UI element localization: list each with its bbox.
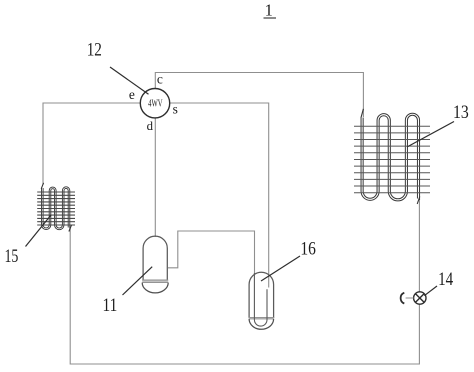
leader line 11 bbox=[123, 267, 153, 295]
condenser coil 13 fins bbox=[354, 126, 430, 193]
evaporator coil 15 fins bbox=[37, 192, 75, 225]
accumulator 16 internal inlet tube and U-turn bbox=[254, 273, 267, 326]
condenser 13 outlet tick bbox=[417, 197, 420, 205]
svg-text:11: 11 bbox=[103, 296, 118, 316]
wire e: valve left to evaporator 15 inlet bbox=[43, 103, 140, 185]
leader line 15 bbox=[26, 215, 52, 247]
svg-text:d: d bbox=[147, 119, 154, 133]
evaporator 15 inlet tick bbox=[41, 183, 43, 189]
wire s: valve right to accumulator 16 internal tube bbox=[170, 103, 269, 288]
expansion valve 14 circle with X bbox=[414, 292, 426, 304]
leader line 13 bbox=[407, 122, 454, 148]
valve 14 sensor link line bbox=[406, 297, 414, 299]
svg-text:12: 12 bbox=[87, 41, 102, 61]
condenser coil 13 tube bbox=[361, 113, 420, 201]
valve 14 sensor bulb arc bbox=[401, 293, 405, 304]
wire: compressor 11 side to accumulator 16 top bbox=[168, 231, 255, 274]
figure number 1 bbox=[264, 0, 277, 19]
svg-text:13: 13 bbox=[453, 103, 469, 123]
leader line 16 bbox=[261, 256, 300, 281]
leader line 14 bbox=[424, 286, 437, 296]
wire d: valve bottom to compressor 11 top bbox=[154, 118, 156, 237]
compressor 11 body bbox=[142, 236, 168, 293]
svg-text:c: c bbox=[157, 72, 163, 87]
svg-text:1: 1 bbox=[265, 0, 273, 19]
wire c: valve top to condenser 13 inlet bbox=[155, 73, 363, 118]
svg-text:4WV: 4WV bbox=[148, 99, 163, 110]
evaporator 15 outlet tick bbox=[69, 225, 72, 232]
leader line 12 bbox=[110, 67, 149, 94]
accumulator 16 body bbox=[249, 272, 275, 329]
svg-text:16: 16 bbox=[300, 240, 316, 260]
evaporator coil 15 tube bbox=[42, 187, 70, 230]
svg-text:14: 14 bbox=[438, 270, 453, 290]
4-way valve 12 circle bbox=[140, 89, 169, 118]
wire: evaporator 15 outlet down, bottom run, up through valve 14 to condenser 13 outlet bbox=[70, 200, 419, 364]
svg-text:15: 15 bbox=[4, 247, 18, 267]
svg-text:s: s bbox=[173, 102, 178, 117]
svg-text:e: e bbox=[129, 87, 135, 102]
condenser 13 inlet tick bbox=[361, 109, 363, 118]
